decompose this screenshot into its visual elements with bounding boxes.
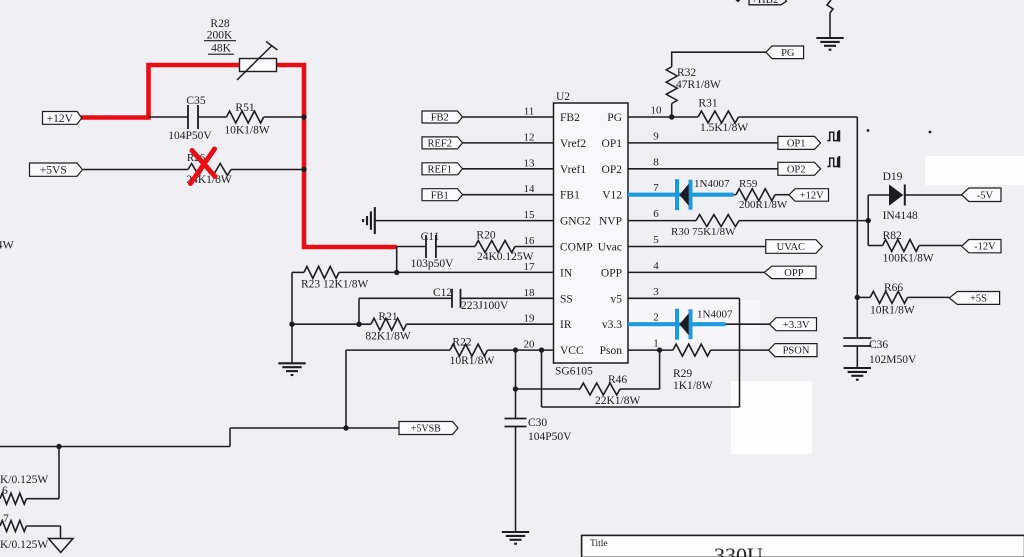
svg-text:4W: 4W (0, 238, 15, 252)
svg-text:SG6105: SG6105 (555, 366, 593, 378)
svg-text:v3.3: v3.3 (602, 319, 622, 331)
svg-text:8: 8 (653, 156, 659, 168)
svg-text:R51: R51 (235, 102, 254, 114)
svg-text:+HB2: +HB2 (752, 0, 779, 6)
svg-text:+3.3V: +3.3V (783, 320, 810, 331)
svg-text:OP1: OP1 (602, 138, 623, 150)
svg-text:1: 1 (653, 338, 659, 350)
svg-text:C35: C35 (186, 95, 205, 107)
svg-text:18: 18 (524, 287, 536, 299)
svg-text:R66: R66 (884, 282, 903, 294)
svg-text:10: 10 (651, 105, 663, 117)
svg-text:102M50V: 102M50V (869, 354, 917, 366)
svg-text:Vref1: Vref1 (560, 164, 586, 176)
svg-text:R20: R20 (476, 230, 495, 242)
svg-text:11: 11 (524, 106, 535, 118)
svg-text:C30: C30 (528, 417, 547, 429)
svg-text:R31: R31 (698, 98, 717, 110)
svg-text:U2: U2 (556, 91, 570, 103)
svg-text:R59: R59 (739, 178, 758, 190)
svg-text:7: 7 (653, 182, 659, 194)
svg-text:GNG2: GNG2 (560, 216, 591, 228)
svg-text:K/0.125W: K/0.125W (0, 539, 48, 551)
svg-text:REF2: REF2 (427, 138, 452, 149)
svg-text:Vref2: Vref2 (560, 138, 586, 150)
svg-text:R29: R29 (673, 368, 692, 380)
svg-text:20: 20 (524, 339, 536, 351)
svg-text:R23 12K1/8W: R23 12K1/8W (301, 279, 369, 291)
svg-text:3: 3 (653, 286, 659, 298)
svg-text:5: 5 (653, 234, 659, 246)
svg-text:R32: R32 (677, 67, 696, 79)
svg-text:-5V: -5V (977, 190, 994, 201)
svg-text:10R1/8W: 10R1/8W (870, 305, 915, 317)
svg-text:1N4007: 1N4007 (697, 309, 733, 321)
svg-text:2: 2 (653, 312, 659, 324)
svg-text:NVP: NVP (599, 216, 622, 228)
svg-text:82K1/8W: 82K1/8W (365, 331, 411, 343)
svg-text:IN4148: IN4148 (883, 210, 918, 222)
svg-text:103p50V: 103p50V (411, 258, 455, 270)
svg-text:COMP: COMP (560, 242, 593, 254)
svg-text:D19: D19 (883, 171, 903, 183)
svg-text:Uvac: Uvac (598, 242, 622, 254)
svg-text:+12V: +12V (800, 191, 824, 202)
svg-text:104P50V: 104P50V (528, 431, 572, 443)
svg-text:R46: R46 (608, 374, 627, 386)
svg-text:13: 13 (524, 157, 536, 169)
svg-text:v5: v5 (611, 293, 623, 305)
svg-text:PSON: PSON (783, 346, 810, 357)
svg-text:V12: V12 (602, 190, 622, 202)
svg-text:R28: R28 (210, 18, 229, 30)
svg-text:200K: 200K (207, 30, 233, 42)
svg-text:4: 4 (653, 260, 659, 272)
svg-text:100K1/8W: 100K1/8W (883, 253, 934, 265)
svg-text:12: 12 (524, 131, 535, 143)
svg-text:19: 19 (524, 313, 536, 325)
svg-text:OP2: OP2 (787, 164, 806, 175)
svg-text:FB1: FB1 (560, 190, 580, 202)
svg-text:C12: C12 (433, 287, 452, 299)
svg-text:R30 75K1/8W: R30 75K1/8W (671, 226, 736, 238)
svg-text:IN: IN (560, 267, 573, 279)
svg-text:24K0.125W: 24K0.125W (477, 251, 534, 263)
svg-text:C36: C36 (869, 339, 888, 351)
svg-text:SS: SS (560, 293, 573, 305)
svg-text:-12V: -12V (974, 242, 996, 253)
svg-text:+5VS: +5VS (40, 165, 67, 177)
svg-text:Title: Title (590, 539, 608, 549)
svg-text:+5VSB: +5VSB (411, 423, 441, 434)
svg-text:PG: PG (781, 48, 795, 59)
svg-text:FB2: FB2 (431, 113, 449, 124)
svg-text:48K: 48K (211, 43, 232, 55)
svg-text:6: 6 (653, 208, 659, 220)
svg-text:15: 15 (524, 209, 536, 221)
svg-text:200R1/8W: 200R1/8W (739, 199, 788, 211)
svg-text:IR: IR (560, 319, 572, 331)
svg-text:R82: R82 (883, 230, 902, 242)
svg-text:R22: R22 (452, 337, 471, 349)
svg-text:REF1: REF1 (427, 164, 452, 175)
svg-text:330U: 330U (714, 543, 763, 557)
svg-text:10K1/8W: 10K1/8W (224, 125, 270, 137)
svg-text:FB1: FB1 (431, 190, 449, 201)
svg-text:R21: R21 (378, 311, 397, 323)
svg-text:223J100V: 223J100V (461, 300, 509, 312)
svg-text:Pson: Pson (600, 345, 623, 357)
svg-text:16: 16 (524, 235, 536, 247)
svg-text:6: 6 (2, 485, 8, 497)
svg-text:22K1/8W: 22K1/8W (595, 395, 641, 407)
svg-text:10R1/8W: 10R1/8W (450, 355, 495, 367)
svg-text:104P50V: 104P50V (168, 130, 212, 142)
svg-text:OP2: OP2 (602, 164, 623, 176)
svg-text:PG: PG (607, 112, 622, 124)
svg-text:+5S: +5S (970, 294, 987, 305)
svg-text:C11: C11 (421, 231, 440, 243)
svg-text:FB2: FB2 (560, 112, 580, 124)
svg-text:OPP: OPP (601, 267, 622, 279)
svg-text:OP1: OP1 (787, 138, 806, 149)
svg-text:VCC: VCC (560, 345, 584, 357)
svg-text:1.5K1/8W: 1.5K1/8W (700, 122, 748, 134)
svg-text:9: 9 (653, 130, 659, 142)
svg-text:14: 14 (524, 183, 536, 195)
svg-text:UVAC: UVAC (777, 242, 805, 253)
svg-text:47R1/8W: 47R1/8W (676, 79, 721, 91)
svg-text:OPP: OPP (784, 268, 803, 279)
svg-text:1K1/8W: 1K1/8W (673, 380, 713, 392)
svg-text:+12V: +12V (47, 113, 74, 125)
svg-text:1N4007: 1N4007 (694, 178, 730, 190)
